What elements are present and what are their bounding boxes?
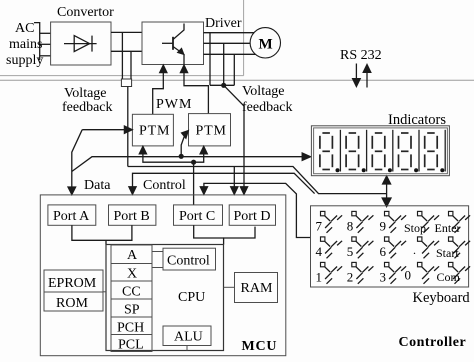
switch key 3: [385, 262, 407, 283]
sense block: [121, 79, 131, 87]
switch key 1: [321, 262, 343, 283]
keyboard block: [311, 206, 469, 287]
svg-text:mains: mains: [9, 37, 42, 52]
svg-text:AC: AC: [15, 21, 34, 36]
motor M: [250, 28, 280, 58]
digit 5: [425, 133, 438, 170]
svg-text:Data: Data: [84, 178, 111, 193]
svg-text:Driver: Driver: [205, 16, 242, 31]
wire indicators keyboard link double arrow: [382, 176, 391, 207]
svg-text:Controller: Controller: [399, 335, 467, 350]
EPROM block: [44, 270, 103, 292]
svg-text:Enter: Enter: [435, 221, 461, 235]
control unit block: [163, 248, 216, 270]
switch key dot: [418, 237, 440, 258]
Port B block: [109, 205, 156, 225]
wire keyboard scan bus L4: [200, 183, 310, 237]
wire DC bus sense taps: [122, 32, 131, 79]
svg-text:M: M: [259, 36, 273, 52]
wire CPU to RAM stub: [224, 286, 235, 288]
convertor block: [51, 22, 111, 65]
svg-text:Keyboard: Keyboard: [413, 290, 471, 306]
digit 4: [399, 133, 412, 170]
wire port D to CPU: [224, 227, 255, 245]
svg-text:ALU: ALU: [174, 330, 203, 345]
svg-text:9: 9: [380, 219, 387, 234]
svg-text:A: A: [127, 248, 138, 263]
wire PWM right gate drive: [180, 65, 208, 114]
wire voltage feedback bus L3: [128, 167, 387, 195]
digit 2: [346, 133, 359, 170]
svg-text:Control: Control: [167, 254, 210, 269]
digit separators and decimal points: [336, 130, 446, 173]
svg-text:RAM: RAM: [241, 281, 273, 296]
svg-text:X: X: [127, 267, 137, 282]
svg-text:PWM: PWM: [156, 97, 192, 112]
svg-text:feedback: feedback: [62, 100, 113, 115]
svg-text:0: 0: [405, 268, 412, 283]
page cell border vertical grey: [243, 0, 245, 76]
svg-text:CC: CC: [122, 285, 141, 300]
svg-text:Voltage: Voltage: [242, 84, 285, 99]
svg-text:Port A: Port A: [53, 209, 90, 224]
svg-text:EPROM: EPROM: [48, 276, 97, 291]
PTM timer block right: [189, 114, 231, 146]
Port C block: [174, 205, 223, 225]
wire data bus to indicators L1: [72, 153, 311, 172]
driver block: [142, 22, 204, 65]
svg-text:feedback: feedback: [242, 100, 293, 115]
indicators display block: [311, 126, 449, 176]
switch key 2: [352, 262, 374, 283]
register A: [111, 245, 152, 264]
register PCH: [111, 317, 152, 335]
switch key 0: [418, 262, 440, 283]
svg-text:4: 4: [316, 244, 323, 259]
Port D block: [229, 205, 275, 225]
switch key 8: [352, 211, 374, 232]
svg-text:2: 2: [347, 270, 354, 285]
svg-text:Indicators: Indicators: [388, 112, 446, 128]
RAM block: [235, 273, 278, 303]
switch key 5: [352, 237, 374, 258]
svg-text:Voltage: Voltage: [64, 86, 107, 101]
wire PWM left gate drive: [153, 65, 167, 114]
switch key Stop: [418, 211, 440, 232]
wire port bus drop: [105, 240, 107, 244]
wire right voltage feedback drop: [224, 85, 248, 194]
svg-text:Port B: Port B: [114, 209, 150, 224]
svg-text:6: 6: [380, 244, 387, 259]
wire control bus L5: [129, 173, 315, 194]
PTM timer block left: [132, 114, 173, 146]
register CC: [111, 281, 152, 299]
svg-text:PTM: PTM: [196, 124, 227, 139]
svg-text:PTM: PTM: [139, 124, 170, 139]
digit 1: [320, 133, 333, 170]
wire PTM trigger bus L2: [139, 146, 207, 162]
seven segment digits: [320, 133, 437, 170]
svg-text:PCL: PCL: [118, 338, 144, 353]
ROM block: [44, 292, 103, 311]
switch key Start: [449, 237, 471, 258]
RS 232 arrows: [353, 64, 371, 88]
register X: [111, 264, 152, 282]
keyboard switches grid: [321, 211, 471, 283]
svg-text:Convertor: Convertor: [57, 5, 114, 20]
transistor Q1: [162, 24, 184, 65]
switch key Com: [449, 262, 471, 283]
svg-text:supply: supply: [6, 53, 43, 68]
switch key 6: [385, 237, 407, 258]
ALU block: [163, 326, 211, 346]
diode D1: [64, 36, 97, 52]
svg-text:MCU: MCU: [242, 339, 278, 354]
wire left voltage feedback drop: [127, 87, 129, 167]
wire stack to control stubs: [152, 252, 163, 268]
node PTM trigger junction: [191, 160, 196, 165]
svg-text:.: .: [413, 243, 416, 257]
switch key 9: [385, 211, 407, 232]
svg-text:Stop: Stop: [404, 221, 426, 235]
svg-text:5: 5: [347, 244, 354, 259]
switch key 7: [321, 211, 343, 232]
wire motor phase sense taps: [210, 33, 234, 86]
svg-text:Control: Control: [143, 178, 186, 193]
switch key 4: [321, 237, 343, 258]
svg-text:8: 8: [347, 219, 354, 234]
svg-text:PCH: PCH: [117, 321, 144, 336]
register PCL: [111, 335, 152, 352]
wire ROM to CPU stub: [103, 291, 106, 293]
svg-text:CPU: CPU: [178, 290, 205, 305]
svg-text:1: 1: [316, 270, 323, 285]
register SP: [111, 299, 152, 317]
wire convertor to driver DC bus: [111, 32, 142, 51]
svg-text:ROM: ROM: [56, 296, 88, 311]
wire ALU stub: [186, 346, 188, 351]
svg-text:7: 7: [316, 219, 323, 234]
node phase sense junction: [221, 83, 226, 88]
svg-text:RS 232: RS 232: [340, 48, 382, 63]
MCU block: [40, 195, 285, 356]
wire port A and B to CPU: [72, 225, 132, 240]
node AC supply bus: [34, 23, 51, 60]
wire data branch to right PTM: [181, 131, 188, 157]
wire data bus to left PTM: [68, 126, 132, 195]
page rule upper grey line: [0, 75, 244, 77]
wire driver to motor 3 phase: [204, 33, 258, 55]
svg-text:Start: Start: [436, 246, 459, 260]
node data junction: [179, 154, 184, 159]
Port A block: [48, 205, 96, 225]
page rule lower grey line: [0, 79, 474, 81]
svg-text:Port C: Port C: [179, 209, 215, 224]
digit 3: [372, 133, 385, 170]
wire port C to CPU: [194, 225, 224, 238]
wire junction to Port C: [193, 162, 195, 205]
svg-text:SP: SP: [124, 303, 140, 318]
switch key Enter: [449, 211, 471, 232]
svg-text:3: 3: [380, 270, 387, 285]
svg-text:Port D: Port D: [234, 209, 271, 224]
svg-text:Com: Com: [437, 270, 461, 284]
CPU block: [106, 245, 224, 351]
keyboard key labels: [316, 219, 461, 285]
